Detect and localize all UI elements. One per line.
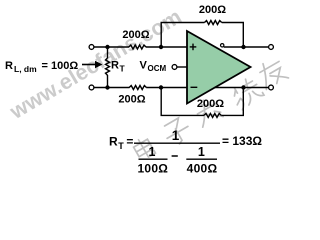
wire top feedback left [161,23,204,48]
svg-text:R: R [109,135,118,149]
resistor R3 200ohm top feedback [205,21,222,25]
resistor R1 200ohm top input [129,45,146,49]
svg-text:=: = [126,135,133,149]
svg-text:V: V [140,59,148,71]
node input top [105,45,109,49]
op-amp plus input marker [190,44,197,51]
terminal VOCM [172,65,177,70]
node output top [241,45,245,49]
svg-text:R: R [5,60,13,72]
node output bottom [241,85,245,89]
terminal output top [269,45,274,50]
formula RT equation [109,128,262,176]
svg-text:L, dm: L, dm [14,64,37,74]
resistor RT termination [106,47,110,88]
op-amp output bubble [221,44,224,47]
terminal input top [89,45,94,50]
label VOCM [140,59,167,73]
arrow pointing to RT [82,61,103,68]
svg-text:OCM: OCM [148,64,167,73]
svg-text:R: R [111,59,119,71]
watermark www.elecfans.com [5,4,186,124]
label RL,dm = 100ohm [5,60,78,74]
op-amp U1 [187,31,251,104]
wire output top [224,46,269,48]
wire top feedback right [222,23,244,48]
svg-text:200Ω: 200Ω [118,94,145,106]
wire output bottom [215,87,269,89]
op-amp minus input marker [191,86,198,88]
wire top rail right [146,46,187,48]
svg-text:= 133Ω: = 133Ω [222,134,262,148]
svg-text:T: T [118,141,124,151]
svg-text:400Ω: 400Ω [187,162,218,176]
wire top rail left [94,46,129,48]
terminal input bottom [89,85,94,90]
node feedback top [159,45,163,49]
svg-text:T: T [120,63,126,73]
node feedback bottom [159,85,163,89]
resistor R4 200ohm bottom feedback [204,113,221,117]
svg-text:100Ω: 100Ω [137,162,168,176]
svg-text:1: 1 [149,145,156,159]
svg-text:200Ω: 200Ω [197,98,224,110]
svg-text:200Ω: 200Ω [199,4,226,16]
wire bottom rail right [146,87,187,89]
wire bottom feedback right [221,88,243,116]
svg-text:1: 1 [198,145,205,159]
wire bottom rail left [94,87,130,89]
svg-text:= 100Ω: = 100Ω [42,60,79,72]
wire VOCM [177,66,187,68]
resistor R2 200ohm bottom input [129,86,146,90]
label RT [111,59,126,73]
svg-text:200Ω: 200Ω [122,29,149,41]
terminal output bottom [269,85,274,90]
wire bottom feedback left [161,88,204,116]
svg-text:1: 1 [172,128,180,143]
node input bottom [105,85,109,89]
watermark CJK characters [132,56,289,161]
